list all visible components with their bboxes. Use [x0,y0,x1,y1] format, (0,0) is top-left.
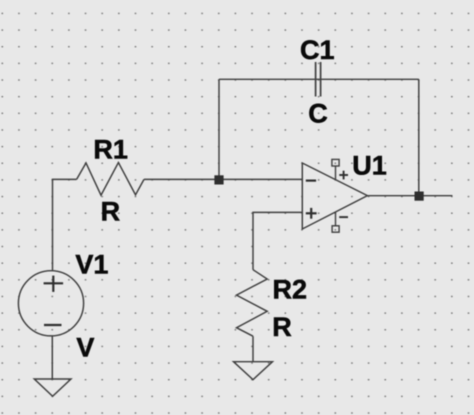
op-amp inverting input minus sign [306,180,316,182]
wire: feedback left vertical (node A up to C1 level) [218,79,220,179]
V1 plus sign [44,276,64,292]
voltage source V1 circle [18,271,83,336]
op-amp positive supply plus sign [339,171,348,180]
wire: V1 bottom to ground [51,336,53,379]
svg-text:R2: R2 [273,275,308,305]
node A junction square [214,175,223,184]
wire: op-amp output to right [367,195,452,197]
op-amp non-inverting input plus sign [306,208,317,219]
svg-text:U1: U1 [352,151,387,181]
capacitor C1 [316,62,321,97]
svg-text:V1: V1 [75,249,108,279]
ground symbol at V1 [34,379,71,396]
svg-text:R: R [272,312,292,342]
svg-text:R: R [101,196,121,226]
wire: non-inverting input to R2 [253,212,302,269]
wire: R1 to op-amp inverting input (through node A) [144,178,302,180]
op-amp U1 triangle [302,163,367,229]
svg-text:C1: C1 [300,35,335,65]
op-amp negative supply stub wire [335,212,337,226]
resistor R1 [77,163,144,196]
V1 minus sign [44,324,62,326]
svg-text:C: C [308,98,328,128]
resistor R2 [237,270,268,337]
op-amp positive supply pin square [332,159,339,166]
wire: V1 top vertical to R1 level [53,179,77,270]
op-amp positive supply stub wire [335,166,337,180]
svg-text:V: V [76,333,94,363]
wire: top feedback horizontal through C1 [219,78,419,80]
svg-text:R1: R1 [93,135,128,165]
ground symbol at R2 [234,362,273,380]
op-amp negative supply pin square [332,226,339,232]
op-amp negative supply minus sign [339,216,348,218]
wire: R2 bottom to ground [252,336,254,362]
wire: feedback right vertical down to output node [418,79,420,196]
output node junction square [415,192,424,201]
